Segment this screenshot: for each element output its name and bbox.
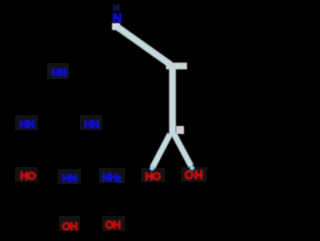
svg-text:N: N xyxy=(113,11,122,26)
highlighted chain: right tick stub xyxy=(176,126,184,134)
svg-text:OH: OH xyxy=(185,168,204,182)
highlighted chain: right branch bond to OH xyxy=(174,134,194,170)
svg-text:HN: HN xyxy=(62,173,77,185)
highlighted chain: horizontal stub bond xyxy=(166,63,187,70)
label background boxes (faint) xyxy=(15,63,207,231)
svg-text:HO: HO xyxy=(145,171,161,183)
svg-text:HO: HO xyxy=(20,171,36,183)
svg-text:HN: HN xyxy=(52,67,67,79)
highlighted chain: left branch bond to HO xyxy=(150,134,170,171)
highlighted chain: stub below N xyxy=(112,23,120,30)
svg-text:HN: HN xyxy=(84,119,99,131)
highlighted chain: vertical bond xyxy=(169,64,176,136)
highlighted chain: bond N-C (diagonal) xyxy=(116,26,171,65)
svg-text:OH: OH xyxy=(62,221,78,233)
svg-text:HN: HN xyxy=(20,119,35,131)
svg-text:OH: OH xyxy=(105,220,121,232)
